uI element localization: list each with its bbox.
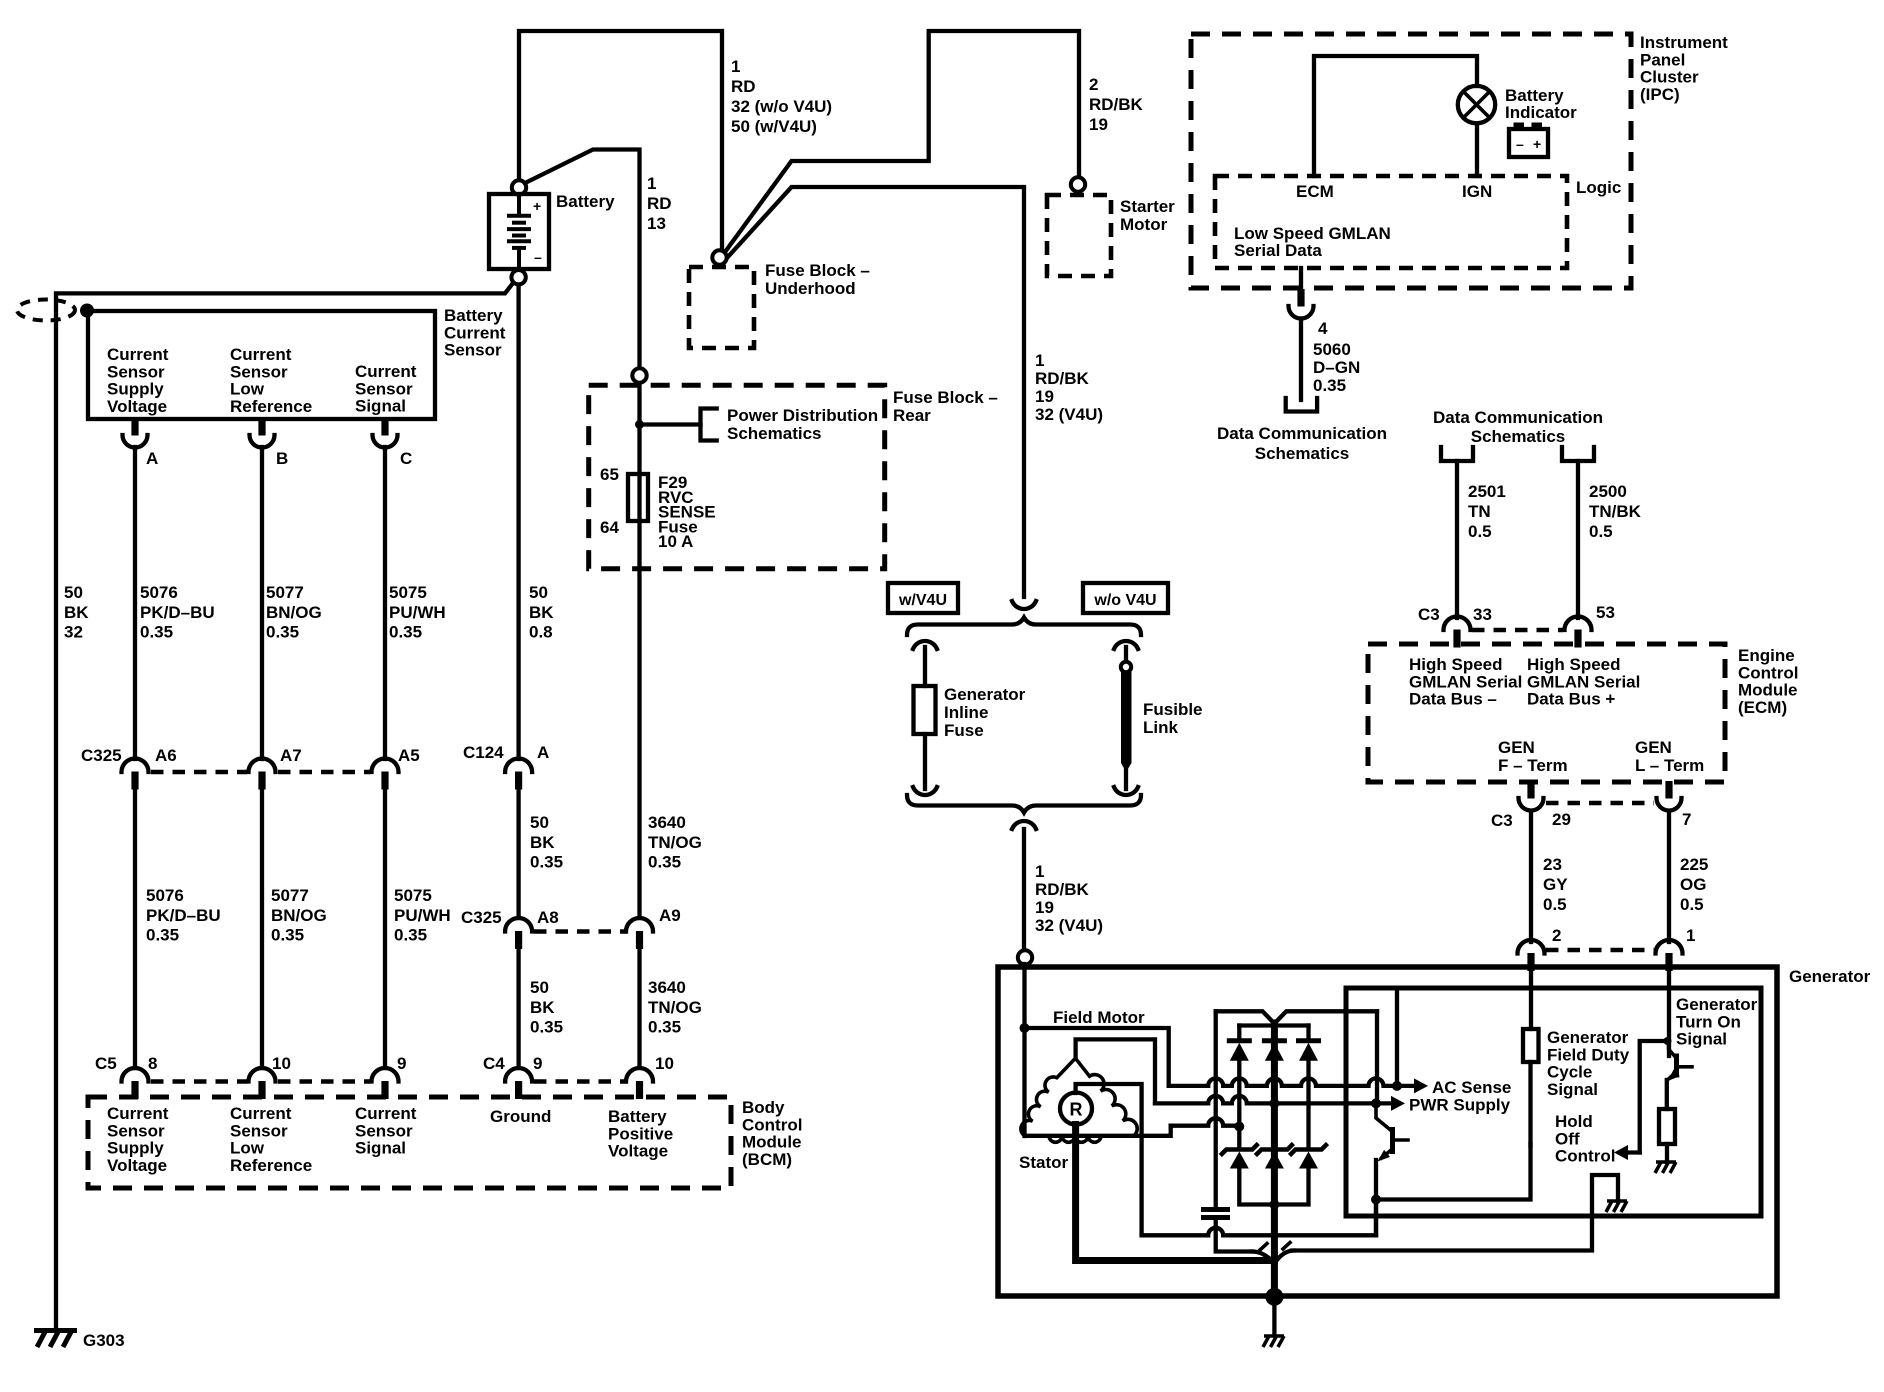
ground (hold-off)	[1607, 1199, 1627, 1203]
svg-text:Voltage: Voltage	[608, 1142, 668, 1161]
wire 50 BK 0.8 from battery down	[516, 285, 520, 759]
svg-text:C3: C3	[1491, 811, 1513, 830]
wire 1 RD 13 from battery to fuse block rear	[525, 150, 640, 370]
battery current sensor box	[88, 311, 435, 419]
fuse block underhood node	[712, 250, 726, 264]
svg-text:TN/BK: TN/BK	[1589, 502, 1642, 521]
generator B+ terminal	[1018, 950, 1032, 964]
svg-text:0.5: 0.5	[1680, 895, 1704, 914]
junction dot PWR line / center diodes	[1269, 1098, 1279, 1108]
connector pin C of battery current sensor	[381, 418, 388, 436]
junction dot turn-on base tap	[1664, 1037, 1672, 1045]
svg-text:Power Distribution: Power Distribution	[727, 406, 878, 425]
junction dot field motor tap	[1020, 1023, 1030, 1033]
branch hook fusible link	[1114, 641, 1138, 649]
svg-text:Signal: Signal	[355, 1139, 406, 1158]
fuse block rear input node	[632, 368, 646, 382]
junction dot emitter node	[1371, 1195, 1381, 1205]
connector C325 terminal A9	[626, 918, 653, 932]
svg-text:Sensor: Sensor	[230, 362, 288, 381]
svg-text:Voltage: Voltage	[107, 1156, 167, 1175]
zener Z3	[1290, 1144, 1328, 1156]
diode D3	[1306, 1026, 1310, 1041]
svg-text:64: 64	[600, 518, 619, 537]
wire 50 BK 0.35 lower segment	[516, 949, 520, 1069]
connector terminal C4-10	[626, 1068, 653, 1082]
svg-text:A7: A7	[280, 746, 302, 765]
wire capacitor lower to ground node	[1216, 1218, 1253, 1252]
junction dot main ground	[1265, 1288, 1283, 1306]
svg-text:Panel: Panel	[1640, 50, 1685, 69]
fuse block - rear box	[589, 385, 885, 568]
svg-text:0.35: 0.35	[271, 926, 304, 945]
svg-text:50: 50	[64, 583, 83, 602]
svg-text:Hold: Hold	[1555, 1112, 1593, 1131]
ground G303	[34, 1331, 77, 1348]
fuse F29 RVC SENSE	[628, 474, 648, 521]
svg-text:Module: Module	[1738, 681, 1798, 700]
capacitor C1	[1201, 1207, 1230, 1212]
svg-text:0.35: 0.35	[389, 623, 422, 642]
svg-text:C: C	[400, 449, 412, 468]
svg-text:Data Communication: Data Communication	[1433, 408, 1603, 427]
svg-text:Data Bus –: Data Bus –	[1409, 690, 1497, 709]
svg-text:Data Communication: Data Communication	[1217, 424, 1387, 443]
connector pin 4 of IPC	[1297, 289, 1304, 307]
connector terminal C5-9	[372, 1068, 399, 1082]
svg-text:5060: 5060	[1313, 340, 1351, 359]
instrument panel cluster box	[1191, 34, 1631, 288]
svg-text:32 (V4U): 32 (V4U)	[1035, 916, 1103, 935]
svg-text:High Speed: High Speed	[1527, 655, 1621, 674]
svg-text:BK: BK	[64, 603, 89, 622]
svg-text:Link: Link	[1143, 718, 1178, 737]
svg-text:L – Term: L – Term	[1635, 756, 1704, 775]
connector terminal C5-10	[249, 1068, 276, 1082]
svg-text:10 A: 10 A	[658, 532, 693, 551]
svg-text:Current: Current	[355, 1104, 417, 1123]
wire to chassis ground	[1272, 1297, 1276, 1335]
svg-text:0.5: 0.5	[1543, 895, 1567, 914]
wire below resistor R1	[1528, 1062, 1532, 1146]
svg-text:Engine: Engine	[1738, 646, 1795, 665]
svg-text:Reference: Reference	[230, 1156, 312, 1175]
wire 2501 TN 0.5	[1455, 461, 1459, 618]
svg-text:Low: Low	[230, 1139, 265, 1158]
svg-text:50: 50	[530, 978, 549, 997]
body control module box	[88, 1097, 731, 1188]
zener Z1	[1220, 1144, 1258, 1156]
lower diode bus	[1239, 1167, 1308, 1205]
svg-text:Motor: Motor	[1120, 215, 1168, 234]
svg-text:Inline: Inline	[944, 703, 988, 722]
connector terminal 2 at generator	[1518, 940, 1545, 954]
connector C325 terminal A8	[505, 918, 532, 932]
svg-text:A6: A6	[155, 746, 177, 765]
voltage regulator inner box	[1346, 988, 1761, 1216]
svg-text:1: 1	[1035, 351, 1044, 370]
svg-text:Current: Current	[355, 362, 417, 381]
svg-text:9: 9	[397, 1054, 406, 1073]
B+ rail left	[1214, 1011, 1218, 1208]
svg-text:Positive: Positive	[608, 1124, 673, 1143]
connector C124 terminal A	[505, 759, 532, 773]
connector C3 dashes	[1472, 628, 1563, 633]
svg-text:225: 225	[1680, 855, 1708, 874]
svg-text:10: 10	[272, 1054, 291, 1073]
wire 3640 TN/OG lower segment	[637, 949, 641, 1069]
split brace top	[907, 618, 1141, 636]
svg-text:A8: A8	[537, 908, 559, 927]
svg-text:0.5: 0.5	[1468, 522, 1492, 541]
svg-text:F – Term: F – Term	[1498, 756, 1568, 775]
branch bottom hook (fuse)	[913, 787, 937, 795]
svg-text:0.35: 0.35	[394, 926, 427, 945]
svg-text:Voltage: Voltage	[107, 397, 167, 416]
wire 1 RD/BK 19 32(V4U) from underhood node	[726, 187, 1024, 597]
connector pin B of battery current sensor	[258, 418, 265, 436]
svg-text:0.35: 0.35	[648, 853, 681, 872]
starter motor terminal node	[1071, 177, 1085, 191]
svg-text:(BCM): (BCM)	[742, 1150, 792, 1169]
wire AC sense to regulator	[1395, 990, 1399, 1086]
wire end hook above split	[1012, 601, 1036, 609]
wire stator apex / PWR supply line	[1076, 1039, 1155, 1103]
svg-text:PU/WH: PU/WH	[394, 906, 451, 925]
svg-text:32: 32	[64, 623, 83, 642]
svg-text:Starter: Starter	[1120, 197, 1175, 216]
arrow AC sense	[1397, 1084, 1416, 1088]
wire C down	[383, 447, 387, 759]
svg-text:33: 33	[1473, 605, 1492, 624]
svg-text:Signal: Signal	[1676, 1030, 1727, 1049]
arrow PWR supply	[1376, 1101, 1393, 1105]
svg-text:4: 4	[1318, 319, 1328, 338]
wire ground run to hold-off ground	[1292, 1175, 1618, 1251]
off-page connector 2500	[1562, 447, 1594, 461]
sensor clamp loop (dashed ellipse)	[17, 300, 75, 321]
svg-text:GMLAN Serial: GMLAN Serial	[1409, 672, 1522, 691]
svg-text:(IPC): (IPC)	[1640, 85, 1680, 104]
wire ECM to battery indicator to IGN	[1314, 56, 1477, 176]
svg-text:Turn On: Turn On	[1676, 1012, 1741, 1031]
transistor Q2 (turn on)	[1669, 1041, 1675, 1056]
svg-text:5077: 5077	[266, 583, 304, 602]
ground (turn on)	[1656, 1160, 1676, 1164]
wire center column (output)	[1271, 1023, 1278, 1297]
svg-text:BK: BK	[530, 833, 555, 852]
svg-text:Sensor: Sensor	[355, 379, 413, 398]
generator connector dashes	[1546, 948, 1654, 953]
svg-text:RD/BK: RD/BK	[1089, 95, 1144, 114]
connector pin GEN F-Term	[1527, 781, 1534, 799]
branch hook generator inline fuse	[913, 641, 937, 649]
w/o V4U tag box	[1083, 583, 1168, 613]
svg-text:AC Sense: AC Sense	[1432, 1078, 1511, 1097]
svg-text:TN/OG: TN/OG	[648, 833, 702, 852]
connector C325 second dashes	[534, 929, 627, 934]
junction dot power distribution tap	[635, 420, 644, 429]
transistor Q1 (field driver)	[1376, 1103, 1391, 1130]
wire start hook below split	[1012, 821, 1036, 829]
svg-text:Signal: Signal	[355, 397, 406, 416]
svg-text:Sensor: Sensor	[107, 1121, 165, 1140]
svg-text:G303: G303	[83, 1331, 125, 1350]
wire B down	[260, 447, 264, 759]
svg-text:RD: RD	[647, 194, 672, 213]
wire 2500 TN/BK 0.5	[1576, 461, 1580, 618]
svg-text:Stator: Stator	[1019, 1153, 1069, 1172]
svg-text:53: 53	[1596, 603, 1615, 622]
svg-text:PK/D–BU: PK/D–BU	[140, 603, 215, 622]
svg-text:BN/OG: BN/OG	[266, 603, 322, 622]
svg-text:w/V4U: w/V4U	[898, 592, 947, 609]
svg-text:A: A	[537, 743, 549, 762]
wire Q2 emitter to resistor R3	[1665, 1080, 1669, 1109]
svg-text:2500: 2500	[1589, 482, 1627, 501]
svg-text:Fuse Block –: Fuse Block –	[893, 388, 998, 407]
wire emitter node to field resistor	[1376, 1144, 1531, 1200]
wire pin 1 to transistor Q2	[1667, 968, 1671, 1056]
svg-text:50: 50	[530, 813, 549, 832]
svg-text:IGN: IGN	[1462, 182, 1492, 201]
connector terminal C4-9	[505, 1068, 532, 1082]
svg-text:+: +	[533, 198, 541, 214]
svg-text:+: +	[1533, 136, 1541, 152]
svg-text:BK: BK	[529, 603, 554, 622]
power distribution schematics flag	[701, 409, 717, 441]
svg-text:Low: Low	[230, 380, 265, 399]
svg-text:RD/BK: RD/BK	[1035, 369, 1090, 388]
svg-text:8: 8	[148, 1054, 157, 1073]
svg-text:C325: C325	[81, 746, 122, 765]
svg-text:Fuse Block –: Fuse Block –	[765, 261, 870, 280]
wire field motor / AC sense line	[1025, 1028, 1169, 1086]
svg-text:Schematics: Schematics	[1471, 427, 1566, 446]
svg-text:5077: 5077	[271, 886, 309, 905]
wire to power distribution flag	[640, 422, 701, 426]
svg-text:0.35: 0.35	[648, 1018, 681, 1037]
w/V4U tag box	[888, 583, 958, 613]
connector C4 dashes	[534, 1079, 627, 1084]
svg-text:Supply: Supply	[107, 380, 164, 399]
svg-text:Control: Control	[1555, 1147, 1615, 1166]
connector C3 lower dashes	[1546, 801, 1654, 806]
svg-text:Body: Body	[742, 1098, 785, 1117]
svg-text:Current: Current	[230, 1104, 292, 1123]
wire A down	[133, 447, 137, 759]
wires from fuse block underhood node to starter feed	[725, 31, 1079, 252]
junction dot lower bus	[1269, 1200, 1279, 1210]
svg-text:1: 1	[1686, 926, 1695, 945]
connector terminal 1 at generator	[1656, 940, 1683, 954]
svg-text:13: 13	[647, 214, 666, 233]
svg-text:ECM: ECM	[1296, 182, 1334, 201]
svg-text:2: 2	[1089, 75, 1098, 94]
svg-text:B: B	[276, 449, 288, 468]
svg-text:D–GN: D–GN	[1313, 358, 1360, 377]
svg-text:Sensor: Sensor	[444, 341, 502, 360]
B+ rail right to transistor	[1375, 1011, 1379, 1103]
diode D2	[1262, 1038, 1287, 1043]
connector C325 dashes	[151, 770, 247, 775]
svg-text:0.35: 0.35	[530, 853, 563, 872]
svg-text:Module: Module	[742, 1133, 802, 1152]
svg-text:C325: C325	[461, 908, 502, 927]
svg-text:GEN: GEN	[1635, 738, 1672, 757]
wire to fusible link	[1124, 647, 1128, 662]
svg-text:GEN: GEN	[1498, 738, 1535, 757]
svg-text:Current: Current	[230, 345, 292, 364]
svg-text:19: 19	[1035, 898, 1054, 917]
wire diode col3	[1306, 1060, 1310, 1148]
engine control module box	[1368, 644, 1725, 782]
wire rotor top to field transistor emitter node	[1076, 1084, 1142, 1235]
junction dot battery current sensor corner	[80, 304, 94, 318]
svg-text:Schematics: Schematics	[1255, 444, 1350, 463]
upper diode bus	[1239, 1023, 1308, 1027]
svg-text:19: 19	[1035, 387, 1054, 406]
battery negative terminal node	[511, 270, 525, 284]
svg-text:Field Motor: Field Motor	[1053, 1008, 1145, 1027]
svg-text:10: 10	[655, 1054, 674, 1073]
svg-text:Fuse: Fuse	[944, 721, 984, 740]
fusible link eyelet	[1121, 662, 1131, 672]
svg-text:5075: 5075	[389, 583, 427, 602]
junction dot phase to diode	[1234, 1122, 1244, 1132]
wire hold off control	[1640, 1041, 1668, 1153]
svg-text:32 (w/o V4U): 32 (w/o V4U)	[731, 97, 832, 116]
svg-text:GY: GY	[1543, 875, 1568, 894]
wire 23 GY 0.5	[1529, 811, 1533, 942]
svg-text:50 (w/V4U): 50 (w/V4U)	[731, 117, 817, 136]
wire stator right phase	[1137, 1126, 1171, 1136]
connector pin A of battery current sensor	[131, 418, 138, 436]
connector C325 terminal A5	[372, 759, 399, 773]
svg-text:50: 50	[529, 583, 548, 602]
svg-text:32 (V4U): 32 (V4U)	[1035, 405, 1103, 424]
svg-text:R: R	[1070, 1100, 1083, 1120]
svg-text:Indicator: Indicator	[1505, 103, 1577, 122]
wire diode col1	[1237, 1060, 1241, 1148]
svg-text:Signal: Signal	[1547, 1080, 1598, 1099]
ground merge V	[1252, 1251, 1294, 1264]
svg-text:RD: RD	[731, 77, 756, 96]
rotor R	[1060, 1093, 1092, 1125]
battery B+ terminal node	[512, 180, 526, 194]
svg-text:Supply: Supply	[107, 1139, 164, 1158]
fusible link element	[1121, 672, 1132, 763]
resistor R3	[1659, 1109, 1675, 1144]
svg-text:Field Duty: Field Duty	[1547, 1045, 1630, 1064]
svg-text:0.35: 0.35	[266, 623, 299, 642]
wire battery positive to fuse block underhood (top loop)	[519, 31, 722, 251]
svg-text:A9: A9	[659, 906, 681, 925]
svg-text:Generator: Generator	[944, 685, 1026, 704]
svg-text:1: 1	[1035, 862, 1044, 881]
svg-text:GMLAN Serial: GMLAN Serial	[1527, 672, 1640, 691]
junction dot PWR supply tap	[1371, 1098, 1381, 1108]
svg-text:Data Bus +: Data Bus +	[1527, 690, 1615, 709]
svg-text:0.5: 0.5	[1589, 522, 1613, 541]
svg-text:High Speed: High Speed	[1409, 655, 1503, 674]
wire segment	[383, 789, 387, 1068]
svg-text:BK: BK	[530, 998, 555, 1017]
wire 5060 D-GN	[1299, 319, 1303, 401]
svg-text:Control: Control	[742, 1115, 802, 1134]
svg-text:Cycle: Cycle	[1547, 1063, 1592, 1082]
wire rotor bottom to ground node	[1076, 1125, 1275, 1261]
diode D1	[1237, 1026, 1241, 1041]
svg-text:(ECM): (ECM)	[1738, 698, 1787, 717]
battery indicator icon	[1509, 123, 1548, 158]
rectifier B+ bus (V split)	[1216, 1011, 1377, 1023]
svg-text:Generator: Generator	[1789, 967, 1871, 986]
split brace bottom	[907, 795, 1141, 813]
connector C5 dashes	[151, 1079, 247, 1084]
wire below inline fuse	[923, 734, 927, 789]
svg-text:PU/WH: PU/WH	[389, 603, 446, 622]
svg-text:Current: Current	[107, 345, 169, 364]
svg-text:65: 65	[600, 465, 619, 484]
wire 3640 TN/OG segment	[637, 382, 641, 918]
svg-text:C124: C124	[463, 743, 504, 762]
svg-text:Battery: Battery	[556, 192, 615, 211]
connector pin GEN L-Term	[1665, 781, 1672, 799]
svg-text:PK/D–BU: PK/D–BU	[146, 906, 221, 925]
wire segment	[260, 789, 264, 1068]
wire emitter node down to rotor line	[1374, 1200, 1378, 1236]
connector terminal C5-8	[122, 1068, 149, 1082]
svg-text:Battery: Battery	[444, 306, 503, 325]
generator box	[998, 967, 1777, 1296]
wire 225 OG 0.5	[1667, 811, 1671, 942]
branch bottom hook (link)	[1114, 787, 1138, 795]
svg-text:Current: Current	[444, 323, 506, 342]
svg-text:Generator: Generator	[1676, 995, 1758, 1014]
svg-text:Sensor: Sensor	[355, 1121, 413, 1140]
svg-text:0.35: 0.35	[146, 926, 179, 945]
ground (generator case)	[1264, 1334, 1284, 1338]
svg-text:5076: 5076	[140, 583, 178, 602]
svg-text:5076: 5076	[146, 886, 184, 905]
svg-text:A: A	[146, 449, 158, 468]
stator winding	[1021, 1058, 1137, 1136]
svg-text:5075: 5075	[394, 886, 432, 905]
svg-text:Sensor: Sensor	[107, 362, 165, 381]
svg-text:Reference: Reference	[230, 397, 312, 416]
connector C325 terminal A6	[122, 759, 149, 773]
svg-text:0.35: 0.35	[530, 1018, 563, 1037]
svg-text:Generator: Generator	[1547, 1028, 1629, 1047]
svg-text:Fusible: Fusible	[1143, 700, 1203, 719]
zener Z2	[1255, 1144, 1293, 1156]
svg-text:Instrument: Instrument	[1640, 33, 1728, 52]
svg-text:BN/OG: BN/OG	[271, 906, 327, 925]
svg-text:C5: C5	[95, 1054, 117, 1073]
svg-text:Rear: Rear	[893, 406, 931, 425]
battery indicator lamp	[1458, 86, 1495, 123]
junction dot AC sense	[1392, 1081, 1402, 1091]
svg-text:–: –	[534, 249, 542, 265]
svg-text:2501: 2501	[1468, 482, 1506, 501]
wire B+ into generator	[1022, 964, 1026, 1136]
connector C325 terminal A7	[249, 759, 276, 773]
svg-text:3640: 3640	[648, 978, 686, 997]
wire to inline fuse	[923, 647, 927, 686]
wire 1 RD/BK to generator	[1022, 829, 1026, 950]
svg-text:Ground: Ground	[490, 1107, 551, 1126]
